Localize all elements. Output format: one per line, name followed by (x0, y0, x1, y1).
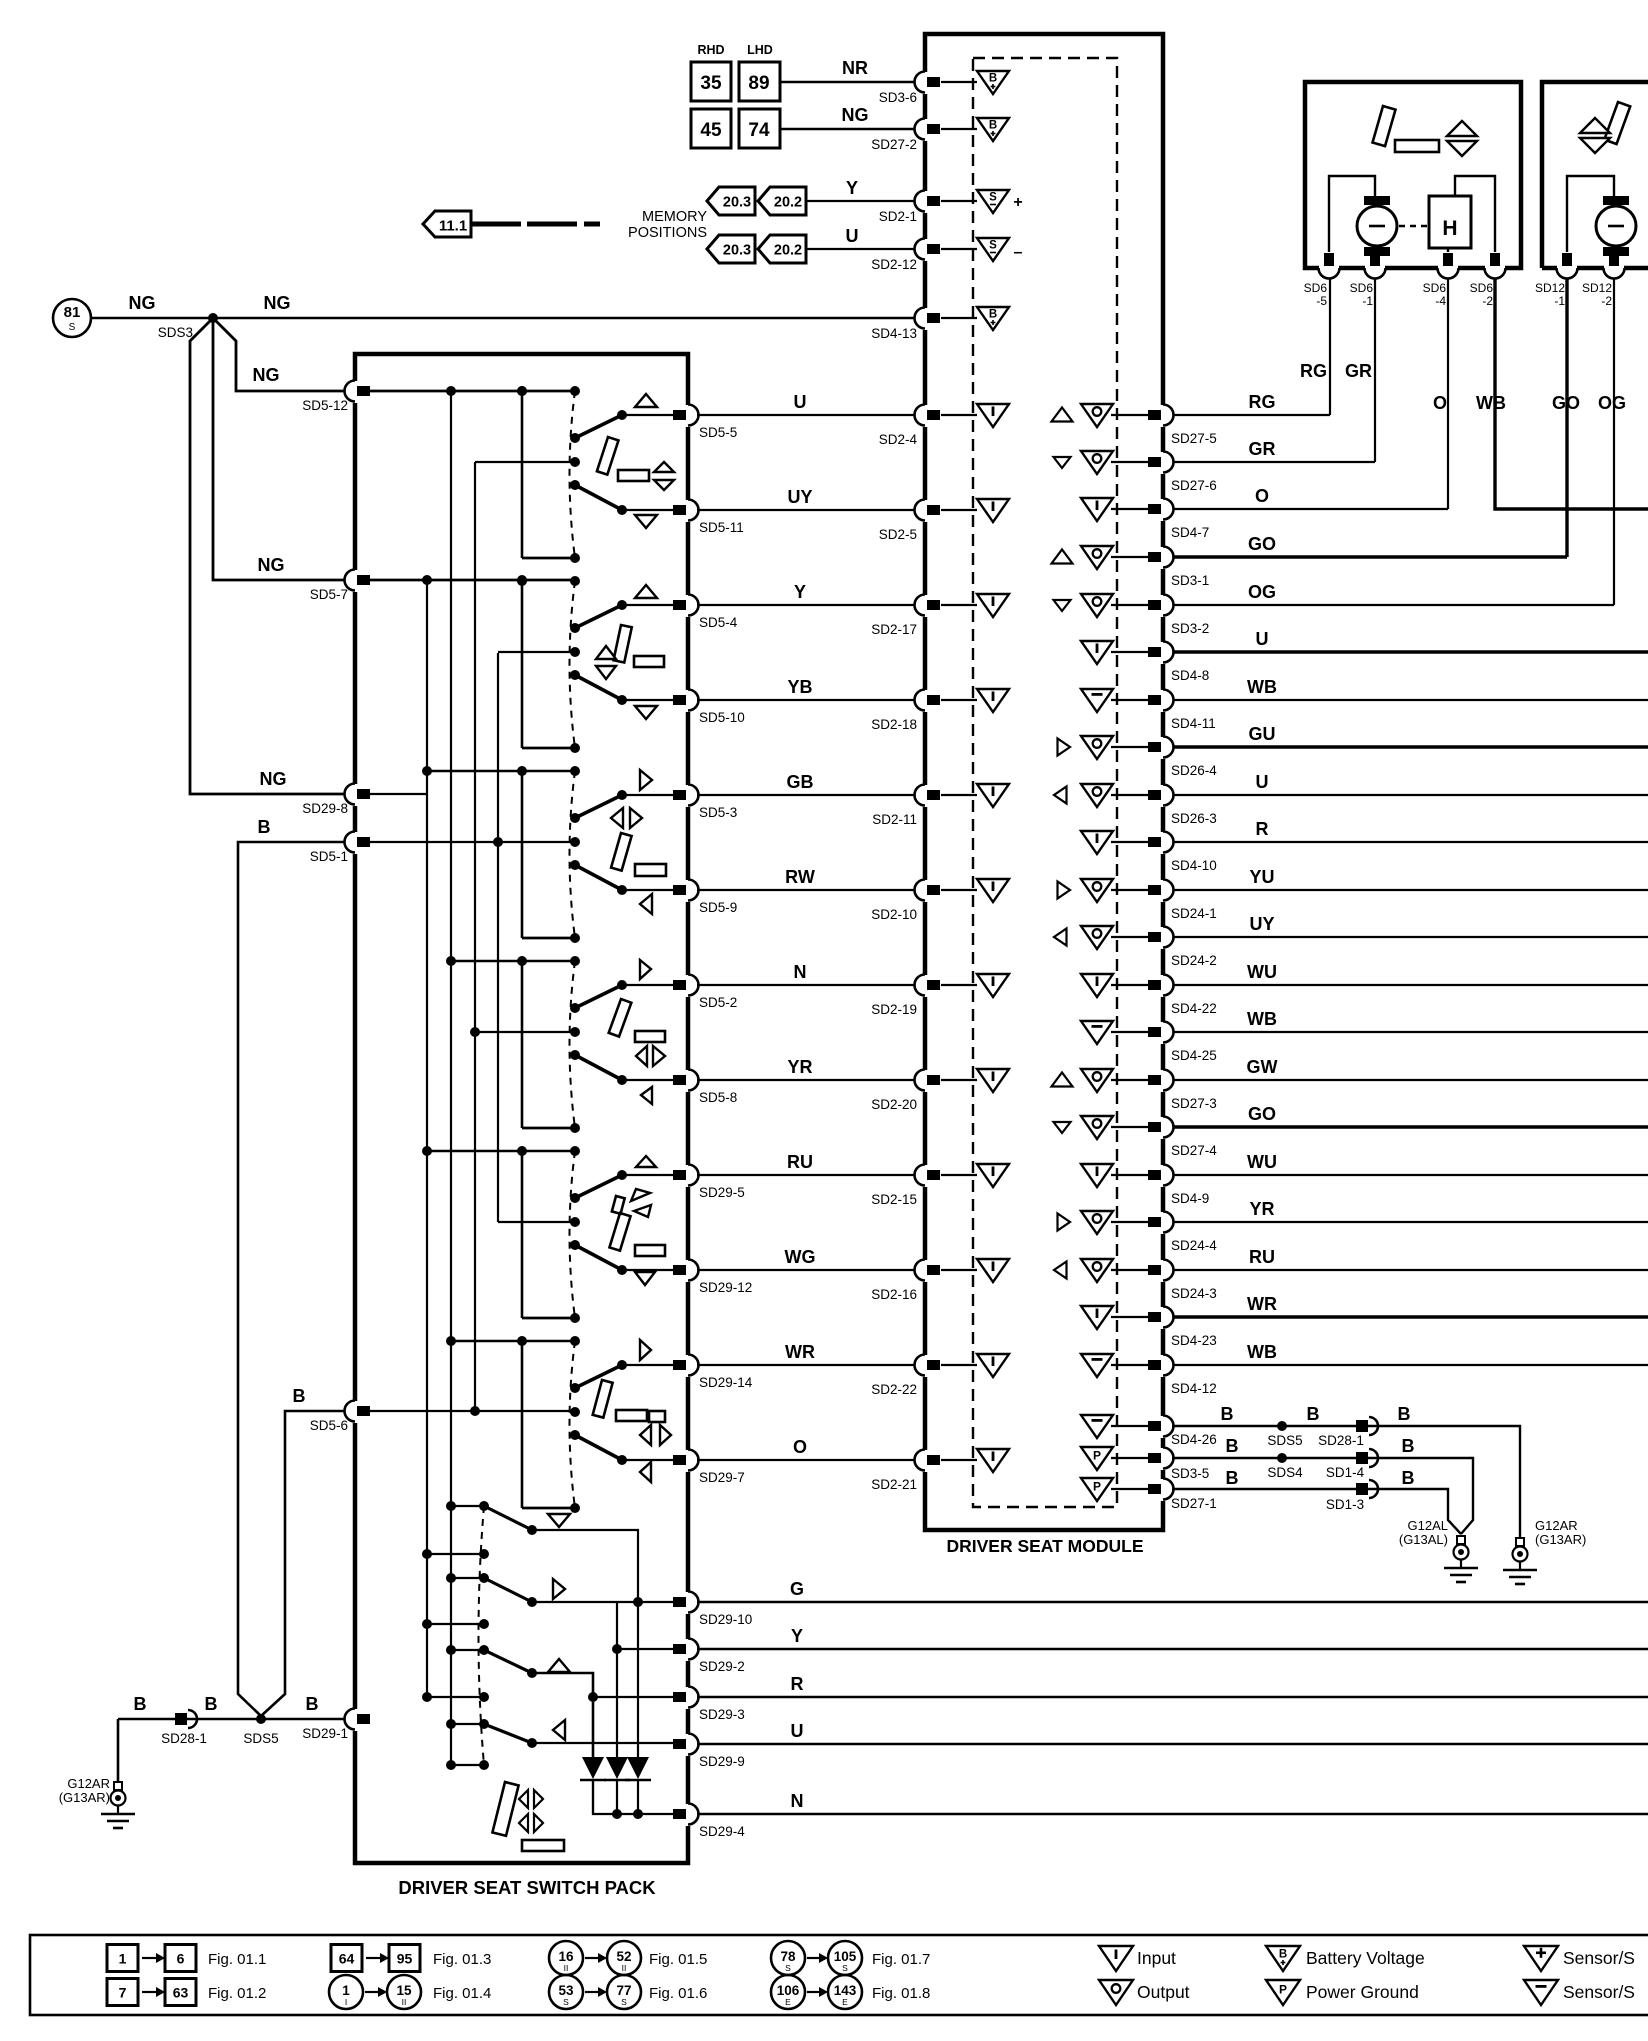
wire N pack to module (697, 984, 921, 986)
internal wire SD27-2 (941, 128, 977, 130)
connector pin SD24-2 (1148, 927, 1174, 950)
direction triangle left SD26-3 (1054, 787, 1067, 804)
wire WU to page edge (1172, 1174, 1648, 1176)
splice SDS4 (1277, 1453, 1287, 1463)
svg-text:SD1-4: SD1-4 (1326, 1465, 1365, 1480)
symbol S triangle SD2-12 (977, 238, 1009, 261)
connector pin SD4-22 (1148, 975, 1174, 998)
wire RG to vertical (1172, 414, 1330, 416)
connector pin SD4-12 (1148, 1355, 1174, 1378)
wire N to page edge (697, 1813, 1648, 1815)
svg-text:SD4-8: SD4-8 (1171, 668, 1209, 683)
wire NR to SD3-6 (780, 81, 925, 83)
internal wire SD2-21 (941, 1459, 977, 1461)
connector pin SD4-7 (1148, 499, 1174, 522)
seat icon G6 (lumbar) (640, 1340, 651, 1360)
svg-text:Y: Y (794, 582, 806, 602)
contact G4 seat slide switch 2 upper (617, 980, 627, 990)
svg-text:11.1: 11.1 (439, 218, 467, 235)
connector pin SD29-4 (673, 1804, 699, 1827)
svg-text:Fig. 01.8: Fig. 01.8 (872, 1985, 930, 2002)
seat motor box 2 (recline) (1542, 82, 1648, 268)
svg-text:SD12: SD12 (1582, 281, 1612, 295)
contact G2 seat front height switch lower (617, 695, 627, 705)
svg-text:SD29-8: SD29-8 (302, 801, 348, 816)
wire NG to SD27-2 (780, 128, 925, 130)
contact wire to pin G5 headrest switch (622, 1174, 688, 1176)
box2 internal wires (1567, 176, 1614, 252)
junction v522 G5 headrest switch (517, 1146, 527, 1156)
legend circle 106/E (771, 1975, 805, 2009)
contact G4 seat slide switch 2 lower (617, 1075, 627, 1085)
legend battery triangle (1266, 1946, 1300, 1971)
wire YU to page edge (1172, 889, 1648, 891)
svg-text:SD26-4: SD26-4 (1171, 763, 1217, 778)
connector pin SD2-21 (915, 1450, 941, 1473)
svg-text:15: 15 (396, 1983, 412, 1998)
svg-text:SD29-4: SD29-4 (699, 1824, 745, 1839)
svg-text:NG: NG (260, 769, 287, 789)
pack internal NG bus row SD5-12 (366, 390, 575, 393)
internal wire SD4-11 (1111, 699, 1150, 701)
wire NG branch to SD5-7 (213, 318, 355, 580)
diode on column x=593 (582, 1757, 604, 1779)
internal wire SD2-17 (941, 604, 977, 606)
junction v522 G4 seat slide switch 2 (517, 956, 527, 966)
svg-text:I: I (345, 1997, 347, 2007)
svg-text:-4: -4 (1435, 294, 1446, 308)
symbol B triangle SD3-6 (977, 71, 1009, 94)
wire Y memory to module (806, 200, 925, 202)
DRIVER SEAT MODULE box (925, 34, 1163, 1530)
connector pin SD3-6 (915, 72, 940, 95)
junction SD5-6 B / v475 (470, 1406, 480, 1416)
v522 segment G6 lumbar switch (521, 1341, 524, 1508)
connector pin SD5-12 (345, 381, 371, 404)
svg-text:UY: UY (1249, 914, 1274, 934)
svg-text:YU: YU (1249, 867, 1274, 887)
pack internal NG bus row SD5-7 (366, 579, 575, 582)
svg-text:SD3-6: SD3-6 (879, 90, 917, 105)
svg-text:S: S (621, 1997, 627, 2007)
svg-text:Input: Input (1137, 1948, 1176, 1968)
connector pin SD29-8 (345, 784, 371, 807)
switch arm upper G1 seat cushion height switch (575, 415, 622, 438)
svg-text:52: 52 (616, 1949, 631, 1964)
pivot dashed line G3 seat slide switch (570, 771, 576, 938)
legend power ground triangle (1266, 1980, 1300, 2005)
input triangle SD2-4 (977, 404, 1009, 427)
internal wire SD27-4 (1111, 1126, 1150, 1128)
svg-text:SD5-4: SD5-4 (699, 615, 738, 630)
legend square 1 (107, 1945, 138, 1972)
svg-text:SD27-6: SD27-6 (1171, 478, 1217, 493)
svg-text:Fig. 01.1: Fig. 01.1 (208, 1951, 266, 1968)
junction v522 G2 seat front height switch (517, 576, 527, 586)
wire B from SD5-1 down to splice SDS5 (238, 842, 355, 1716)
svg-text:R: R (791, 1674, 804, 1694)
fuse box 74 (LHD) (739, 109, 780, 148)
switch arm lower G2 seat front height switch (575, 675, 622, 700)
connector pin SD5-8 (673, 1070, 699, 1093)
pack internal vertical bus v451 (450, 391, 452, 1765)
switch arm upper G5 headrest switch (575, 1175, 622, 1198)
svg-text:SD29-3: SD29-3 (699, 1707, 745, 1722)
pivot dashed line G2 seat front height switch (570, 581, 576, 748)
svg-text:II: II (622, 1963, 627, 1973)
svg-text:Battery Voltage: Battery Voltage (1306, 1948, 1425, 1968)
wire YR pack to module (697, 1079, 921, 1081)
wire GW to page edge (1172, 1079, 1648, 1081)
contact G6 lumbar switch lower (617, 1455, 627, 1465)
symbol O triangle SD24-4 (1081, 1211, 1113, 1234)
wire SD5-6 B row to G6 mid contact (366, 1410, 575, 1412)
svg-text:SD4-7: SD4-7 (1171, 525, 1209, 540)
svg-text:S: S (842, 1963, 848, 1973)
svg-text:SD5-9: SD5-9 (699, 900, 737, 915)
direction triangle down SD27-6 (1054, 457, 1071, 468)
svg-text:B: B (1226, 1436, 1239, 1456)
box1 internal wires (1329, 176, 1375, 252)
wire RU to page edge (1172, 1269, 1648, 1271)
symbol O triangle SD24-2 (1081, 926, 1113, 949)
wire NG from 81 to SD4-13 (91, 317, 925, 320)
input triangle SD2-10 (977, 879, 1009, 902)
svg-text:SD24-2: SD24-2 (1171, 953, 1217, 968)
legend input triangle (1099, 1946, 1133, 1971)
svg-text:S: S (563, 1997, 569, 2007)
svg-text:20.3: 20.3 (723, 243, 751, 259)
svg-text:GB: GB (787, 772, 814, 792)
symbol B triangle SD27-2 (977, 118, 1009, 141)
svg-text:NG: NG (253, 365, 280, 385)
connector pin SD2-4 (915, 405, 941, 428)
svg-text:SD24-1: SD24-1 (1171, 906, 1217, 921)
ground G12AL (G13AL) (1444, 1536, 1478, 1582)
switch arm upper G4 seat slide switch 2 (575, 985, 622, 1008)
wire UY pack to module (697, 509, 921, 511)
legend circle 1/I (329, 1975, 363, 2009)
mid contact feed G4 seat slide switch 2 (475, 1031, 575, 1033)
legend box (30, 1935, 1648, 2015)
svg-text:WG: WG (785, 1247, 816, 1267)
wire O to vertical (1172, 508, 1448, 510)
connector pin SD5-4 (673, 595, 699, 618)
svg-text:II: II (402, 1997, 407, 2007)
wire WR pack to module (697, 1364, 921, 1366)
pivot dashed line G5 headrest switch (570, 1151, 576, 1318)
connector pin SD2-5 (915, 500, 941, 523)
connector pin SD5-1 (345, 832, 371, 855)
svg-text:GR: GR (1249, 439, 1276, 459)
symbol O triangle SD27-3 (1081, 1069, 1113, 1092)
svg-text:Fig. 01.7: Fig. 01.7 (872, 1951, 930, 1968)
wire B row SD27-1 to ground G12AL (1172, 1489, 1461, 1534)
internal wire SD24-2 (1111, 936, 1150, 938)
internal wire SD3-1 (1111, 556, 1150, 558)
direction triangle mirror C (548, 1659, 570, 1672)
svg-text:II: II (564, 1963, 569, 1973)
internal wire SD3-6 (941, 81, 977, 83)
wire YR to page edge (1172, 1221, 1648, 1223)
symbol O triangle SD3-1 (1081, 546, 1113, 569)
direction triangle down SD27-4 (1054, 1122, 1071, 1133)
svg-text:78: 78 (780, 1949, 796, 1964)
internal wire SD2-12 (941, 248, 977, 250)
internal wire SD2-15 (941, 1174, 977, 1176)
svg-text:SD26-3: SD26-3 (1171, 811, 1217, 826)
connector pin SD2-10 (915, 880, 941, 903)
G7 mirror switch bus stubs (451, 1505, 484, 1507)
internal wire SD2-1 (941, 200, 977, 202)
pack internal vertical bus v475 (B chain) (474, 462, 476, 1411)
svg-text:NG: NG (129, 293, 156, 313)
contact G3 seat slide switch lower (617, 885, 627, 895)
svg-text:64: 64 (339, 1951, 355, 1967)
svg-text:SD24-4: SD24-4 (1171, 1238, 1217, 1253)
switch arm lower G1 seat cushion height switch (575, 485, 622, 510)
wire RU pack to module (697, 1174, 921, 1176)
svg-text:MEMORY: MEMORY (642, 209, 707, 225)
seat icon G3 (recline) (640, 770, 652, 790)
wire Y pack to module (697, 604, 921, 606)
svg-text:SDS4: SDS4 (1267, 1465, 1303, 1480)
svg-text:63: 63 (173, 1985, 189, 2001)
svg-text:WB: WB (1247, 1342, 1277, 1362)
seat icon G5 (headrest) (636, 1156, 656, 1167)
legend sensor + triangle (1524, 1946, 1558, 1971)
svg-text:B: B (1221, 1404, 1234, 1424)
wire B row SD3-5 to ground G12AL (1172, 1458, 1473, 1534)
svg-text:NG: NG (258, 555, 285, 575)
svg-text:1: 1 (119, 1951, 127, 1967)
switch arm lower G3 seat slide switch (575, 865, 622, 890)
svg-text:SD5-6: SD5-6 (310, 1418, 348, 1433)
svg-text:Fig. 01.5: Fig. 01.5 (649, 1951, 707, 1968)
svg-text:S: S (69, 322, 76, 333)
symbol minus triangle SD4-11 (1081, 689, 1113, 712)
svg-text:G12AR: G12AR (67, 1776, 110, 1791)
off-page arrow 20.3 (row U) (707, 235, 755, 263)
svg-text:B: B (205, 1694, 218, 1714)
wire GO to page edge (1172, 1125, 1648, 1128)
svg-text:89: 89 (748, 73, 769, 94)
mid contact feed G2 seat front height switch (498, 651, 575, 653)
input triangle SD2-5 (977, 499, 1009, 522)
seat icon box1 (1373, 106, 1396, 146)
svg-text:105: 105 (834, 1949, 857, 1964)
svg-text:SD2-20: SD2-20 (871, 1097, 917, 1112)
direction triangle right SD24-4 (1058, 1214, 1071, 1231)
internal wire SD2-5 (941, 509, 977, 511)
svg-text:B: B (989, 309, 997, 321)
svg-text:SD28-1: SD28-1 (1318, 1433, 1364, 1448)
input triangle SD2-16 (977, 1259, 1009, 1282)
pack internal vertical bus v427 (426, 580, 428, 1697)
connector pin SD4-23 (1148, 1307, 1174, 1330)
diode column v617 (616, 1602, 618, 1757)
legend square 63 (165, 1979, 196, 2006)
svg-text:SD29-1: SD29-1 (302, 1726, 348, 1741)
junction NG / v522 G2 (517, 575, 527, 585)
connector pin SD2-12 (915, 239, 941, 262)
symbol B triangle SD4-13 (977, 307, 1009, 330)
svg-text:45: 45 (700, 120, 722, 141)
wire O vertical to SD6-4 (1447, 277, 1449, 509)
svg-text:WB: WB (1247, 677, 1277, 697)
svg-text:RU: RU (1249, 1247, 1275, 1267)
svg-text:GR: GR (1345, 361, 1372, 381)
svg-text:LHD: LHD (747, 43, 773, 57)
svg-text:DRIVER SEAT MODULE: DRIVER SEAT MODULE (946, 1536, 1143, 1556)
contact G5 headrest switch lower (617, 1265, 627, 1275)
symbol I triangle SD4-8 (1081, 641, 1113, 664)
internal wire SD2-16 (941, 1269, 977, 1271)
wire OG to vertical (1172, 604, 1614, 606)
svg-text:SD4-23: SD4-23 (1171, 1333, 1217, 1348)
junction SD5-1 B / v498 (493, 837, 503, 847)
contact wire to pin G3 seat slide switch (622, 794, 688, 796)
connector pin SD3-1 (1148, 547, 1174, 570)
svg-text:SD27-4: SD27-4 (1171, 1143, 1217, 1158)
internal wire SD4-9 (1111, 1174, 1150, 1176)
svg-text:B: B (1398, 1404, 1411, 1424)
connector pin SD29-1 (345, 1709, 371, 1732)
svg-text:GW: GW (1247, 1057, 1278, 1077)
connector pin SD2-22 (915, 1355, 941, 1378)
DRIVER SEAT SWITCH PACK box (355, 354, 688, 1863)
svg-text:SD2-19: SD2-19 (871, 1002, 917, 1017)
svg-text:SD5-7: SD5-7 (310, 587, 348, 602)
svg-text:B: B (1402, 1436, 1415, 1456)
v522 segment G1 seat cushion height switch (521, 391, 524, 558)
internal wire SD3-5 (1111, 1457, 1150, 1459)
connector pin SD3-5 (1148, 1448, 1174, 1471)
input triangle SD2-22 (977, 1354, 1009, 1377)
connector pin SD4-11 (1148, 690, 1174, 713)
G7 output wire C to diode column v593 (532, 1673, 593, 1757)
off-page arrow 20.3 (row Y) (707, 187, 755, 215)
wire G to page edge (697, 1601, 1648, 1603)
connector pin SD6-1 (1365, 253, 1386, 279)
internal wire SD2-22 (941, 1364, 977, 1366)
connector pin SD2-18 (915, 690, 941, 713)
svg-text:SD2-21: SD2-21 (871, 1477, 917, 1492)
svg-text:SD6: SD6 (1470, 281, 1494, 295)
direction triangle right SD24-1 (1058, 882, 1071, 899)
internal wire SD4-25 (1111, 1031, 1150, 1033)
wire YB pack to module (697, 699, 921, 701)
svg-text:SD2-10: SD2-10 (871, 907, 917, 922)
svg-text:NG: NG (264, 293, 291, 313)
internal wire SD2-20 (941, 1079, 977, 1081)
svg-text:RG: RG (1249, 392, 1276, 412)
svg-text:YB: YB (787, 677, 812, 697)
svg-text:SD29-7: SD29-7 (699, 1470, 745, 1485)
svg-text:P: P (1093, 1480, 1101, 1494)
junction NG / v522 G1 (517, 386, 527, 396)
v522 segment G4 seat slide switch 2 (521, 961, 524, 1128)
connector pin SD2-16 (915, 1260, 941, 1283)
connector pin SD24-4 (1148, 1212, 1174, 1235)
symbol O triangle SD26-3 (1081, 784, 1113, 807)
svg-text:E: E (785, 1997, 791, 2007)
svg-text:GO: GO (1248, 534, 1276, 554)
wire OG vertical to SD12-2 (1613, 277, 1615, 605)
wire SD5-1 B row to G3 mid contact (366, 841, 575, 843)
direction triangle mirror D (553, 1720, 565, 1740)
contact G2 seat front height switch upper (617, 600, 627, 610)
svg-text:SD4-26: SD4-26 (1171, 1432, 1217, 1447)
contact G1 seat cushion height switch upper (617, 410, 627, 420)
wire NG branch to SD29-8 (190, 318, 355, 794)
svg-text:OG: OG (1248, 582, 1276, 602)
seat motor box 1 (cushion height) (1305, 82, 1521, 268)
R row inside pack (593, 1696, 688, 1698)
junction v475 / G4 mid (470, 1027, 480, 1037)
svg-text:SD2-1: SD2-1 (879, 209, 917, 224)
legend circle 77/S (607, 1975, 641, 2009)
internal wire SD4-10 (1111, 841, 1150, 843)
legend output triangle (1099, 1980, 1133, 2005)
internal wire SD3-2 (1111, 604, 1150, 606)
connector pin SD2-17 (915, 595, 941, 618)
off-page arrow 20.2 (row Y) (758, 187, 806, 215)
svg-text:Output: Output (1137, 1982, 1190, 2002)
svg-text:SD2-18: SD2-18 (871, 717, 917, 732)
svg-text:95: 95 (397, 1951, 413, 1967)
legend circle 143/E (828, 1975, 862, 2009)
symbol O triangle SD3-2 (1081, 594, 1113, 617)
svg-text:UY: UY (787, 487, 812, 507)
svg-text:YR: YR (1249, 1199, 1274, 1219)
contact G6 lumbar switch upper (617, 1360, 627, 1370)
svg-text:–: – (1014, 244, 1023, 261)
legend circle 16/II (549, 1941, 583, 1975)
connector pin SD27-2 (915, 119, 941, 142)
svg-text:SD2-4: SD2-4 (879, 432, 918, 447)
svg-text:Sensor/S: Sensor/S (1563, 1948, 1635, 1968)
internal wire SD27-5 (1111, 414, 1150, 416)
direction triangle left SD24-3 (1054, 1262, 1067, 1279)
svg-text:G12AR: G12AR (1535, 1518, 1578, 1533)
connector pin SD5-9 (673, 880, 699, 903)
diode on column x=617 (606, 1757, 628, 1779)
contact wire to pin G2 seat front height switch (622, 604, 688, 606)
connector pin SD2-19 (915, 975, 941, 998)
svg-text:SD5-3: SD5-3 (699, 805, 737, 820)
svg-text:SD29-10: SD29-10 (699, 1612, 752, 1627)
svg-text:U: U (794, 392, 807, 412)
wire GB pack to module (697, 794, 921, 796)
mirror adjust icon (492, 1782, 518, 1836)
wire R to page edge (1172, 841, 1648, 843)
svg-text:NG: NG (842, 105, 869, 125)
svg-text:P: P (1279, 1983, 1287, 1997)
G7 switch arm B (484, 1578, 532, 1602)
direction triangle up SD27-5 (1052, 408, 1073, 422)
svg-text:SDS3: SDS3 (158, 325, 193, 340)
legend circle 15/II (387, 1975, 421, 2009)
wire U memory to module (806, 248, 925, 250)
input triangle SD2-21 (977, 1449, 1009, 1472)
connector pin SD29-3 (673, 1687, 699, 1710)
connector pin SD2-1 (915, 191, 941, 214)
connector pin SD29-12 (673, 1260, 699, 1283)
fuse box 89 (LHD) (739, 62, 780, 101)
internal wire SD4-13 (941, 317, 977, 319)
svg-text:SD4-9: SD4-9 (1171, 1191, 1209, 1206)
